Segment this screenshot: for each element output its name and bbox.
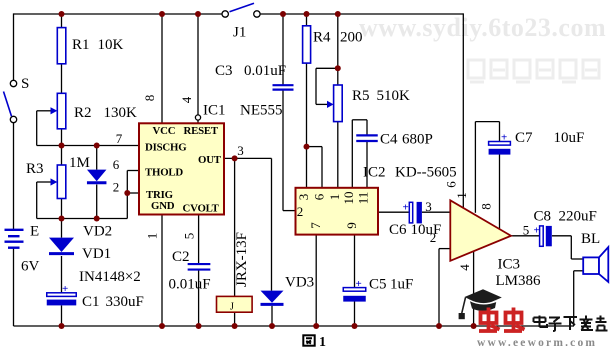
- svg-text:10: 10: [341, 192, 356, 205]
- svg-text:0.01uF: 0.01uF: [244, 63, 286, 79]
- svg-text:R3: R3: [26, 161, 44, 177]
- wire C1 to ground rail: [61, 306, 63, 327]
- wire top rail to R5: [337, 14, 339, 85]
- wire C2 to ground: [198, 270, 200, 326]
- wire IC2 pin10 riser: [351, 120, 353, 188]
- svg-text:3: 3: [425, 199, 432, 214]
- wire node jog: [307, 146, 323, 148]
- wire to speaker top: [570, 236, 572, 259]
- svg-text:+: +: [356, 278, 362, 290]
- wire jog to IC2 pin6: [321, 147, 323, 188]
- svg-text:VD1: VD1: [82, 246, 111, 262]
- svg-text:DISCHG: DISCHG: [145, 142, 187, 154]
- svg-text:C8: C8: [534, 209, 552, 225]
- svg-text:R2: R2: [74, 105, 92, 121]
- svg-text:R4: R4: [313, 30, 331, 46]
- wire C7 to IC3 pin8: [499, 154, 501, 229]
- wire R5 wiper loop: [315, 68, 317, 104]
- svg-text:4: 4: [179, 96, 194, 103]
- svg-text:RESET: RESET: [184, 125, 219, 137]
- wire IC3 pin2 stub: [439, 248, 450, 250]
- svg-text:11: 11: [356, 192, 371, 205]
- wire R5 wiper stub: [316, 103, 328, 105]
- svg-text:S: S: [21, 76, 29, 92]
- wire R2 wiper stub: [37, 110, 52, 112]
- svg-text:THOLD: THOLD: [145, 167, 183, 179]
- svg-text:6V: 6V: [21, 259, 40, 275]
- svg-text:IC1: IC1: [203, 103, 226, 119]
- node junction 19: [269, 323, 275, 329]
- node junction 9: [59, 216, 65, 222]
- svg-text:6: 6: [312, 193, 327, 200]
- svg-text:VCC: VCC: [153, 125, 176, 137]
- svg-text:R5: R5: [352, 88, 370, 104]
- wire IC3 output to C8: [511, 235, 540, 237]
- svg-text:10uF: 10uF: [411, 222, 442, 238]
- svg-text:E: E: [30, 224, 39, 240]
- node junction 18: [232, 323, 238, 329]
- wire pin10-11 bridge: [352, 119, 367, 121]
- capacitor C2 0.01uF: [188, 264, 211, 270]
- resistor R1 10K body: [57, 28, 66, 64]
- node junction 7: [59, 143, 65, 149]
- wire R1 to R2: [61, 64, 63, 94]
- capacitor C3 0.01uF: [273, 85, 294, 89]
- wire C4 bottom lead to pin11: [366, 141, 368, 188]
- wire speaker to ground: [573, 271, 575, 326]
- wire R5 wiper top: [316, 67, 338, 69]
- svg-text:JRX-13F: JRX-13F: [234, 232, 250, 287]
- wire bottom ground rail: [14, 325, 575, 327]
- node junction 13: [304, 144, 310, 150]
- wire C7 top lead: [499, 122, 501, 142]
- battery E 6V: [5, 230, 24, 248]
- svg-text:200: 200: [340, 30, 363, 46]
- capacitor C4 680P: [356, 135, 378, 141]
- svg-text:6: 6: [444, 181, 459, 188]
- wire node to R3: [61, 146, 63, 166]
- svg-text:J: J: [230, 302, 234, 313]
- svg-text:1uF: 1uF: [390, 277, 413, 293]
- resistor R3 1M body: [57, 165, 66, 199]
- resistor R5 510K body: [334, 85, 343, 122]
- wire IC2 pin9 to C5: [354, 235, 356, 288]
- svg-text:10uF: 10uF: [554, 130, 585, 146]
- svg-text:5: 5: [523, 223, 530, 238]
- wire R3 to VD1: [61, 199, 63, 238]
- switch J1: [222, 3, 260, 17]
- svg-text:R1: R1: [72, 37, 90, 53]
- svg-text:C2: C2: [172, 249, 190, 265]
- wire RESET pin4 lower: [197, 120, 199, 123]
- capacitor C8 220uF: [540, 226, 552, 246]
- wire VD2 to lower node: [96, 185, 98, 219]
- svg-text:+: +: [501, 132, 507, 144]
- svg-text:8: 8: [479, 203, 494, 210]
- svg-text:www.eeworm.com: www.eeworm.com: [477, 337, 597, 348]
- svg-text:2: 2: [113, 180, 120, 195]
- wire speaker top stub: [571, 258, 583, 260]
- wire top rail to R1: [61, 14, 63, 28]
- svg-text:GND: GND: [151, 200, 175, 212]
- svg-text:1: 1: [319, 335, 326, 348]
- node junction 15: [59, 323, 65, 329]
- svg-text:C5: C5: [369, 277, 387, 293]
- capacitor C5 1uF: [343, 278, 366, 302]
- switch S: [4, 80, 17, 122]
- svg-text:+: +: [403, 202, 409, 214]
- caption figure 1: [303, 335, 326, 348]
- wire RESET pin4 upper: [197, 14, 199, 115]
- wire battery to bottom rail: [13, 248, 15, 326]
- svg-text:www.sydiy.6to23.com: www.sydiy.6to23.com: [359, 13, 606, 42]
- wire relay to ground: [234, 312, 236, 326]
- wire VD3 to ground: [271, 306, 273, 326]
- svg-text:9: 9: [344, 222, 359, 229]
- svg-text:7: 7: [308, 222, 323, 229]
- svg-text:330uF: 330uF: [106, 294, 144, 310]
- wire switch to battery: [13, 123, 15, 230]
- node junction 8: [94, 143, 100, 149]
- op-amp U1 IC1 NE555 body: [139, 123, 224, 214]
- node junction 4: [280, 11, 286, 17]
- logo text dianzixiazaizhan: [534, 316, 608, 332]
- wire node to VD2: [96, 146, 98, 170]
- wire IC2 pin2 stub: [283, 210, 296, 212]
- svg-text:VD3: VD3: [285, 275, 314, 291]
- wire CVOLT pin5 to C2: [198, 215, 200, 264]
- node junction 16: [159, 323, 165, 329]
- wire THOLD/TRIG tie: [126, 171, 128, 219]
- svg-text:C4: C4: [380, 132, 398, 148]
- wire VCC pin8: [161, 14, 163, 123]
- wire IC3 pin1 riser: [474, 122, 476, 213]
- wire IC3 pin4 to ground: [473, 251, 475, 326]
- svg-text:3: 3: [237, 143, 244, 158]
- svg-text:BL: BL: [581, 231, 600, 247]
- relay J JRX-13F body: [217, 296, 253, 312]
- wire node to IC2 pin3: [306, 147, 308, 188]
- wire THOLD pin6 stub: [127, 170, 139, 172]
- speaker BL: [583, 247, 608, 282]
- svg-text:130K: 130K: [104, 105, 138, 121]
- node junction 22: [436, 323, 442, 329]
- wire R3 wiper loop: [36, 182, 38, 219]
- svg-text:+: +: [62, 283, 68, 295]
- svg-text:1: 1: [145, 233, 160, 240]
- watermark chinese row: [468, 60, 599, 82]
- node junction 6: [335, 11, 341, 17]
- svg-text:J1: J1: [233, 25, 246, 41]
- svg-text:2: 2: [297, 204, 304, 219]
- wire R4 to node: [306, 63, 308, 147]
- svg-text:VD2: VD2: [83, 224, 112, 240]
- wire relay feed: [234, 158, 236, 296]
- node junction 14: [335, 65, 341, 71]
- svg-text:IN4148×2: IN4148×2: [79, 269, 141, 285]
- svg-text:0.01uF: 0.01uF: [169, 277, 211, 293]
- wire top rail right of J1: [260, 13, 463, 15]
- svg-text:10K: 10K: [98, 37, 124, 53]
- wire speaker bottom stub: [574, 270, 584, 272]
- wire C6 to IC3 pin3: [422, 211, 450, 213]
- capacitor C6 10uF: [403, 202, 422, 224]
- svg-text:680P: 680P: [402, 132, 433, 148]
- svg-text:1: 1: [327, 194, 342, 201]
- wire DISCHG pin7 wire: [37, 145, 139, 147]
- diode VD3: [261, 291, 284, 305]
- svg-text:7: 7: [116, 131, 123, 146]
- node junction 1: [59, 11, 65, 17]
- svg-text:+: +: [534, 225, 540, 237]
- wire IC2 out to C6: [378, 211, 409, 213]
- potentiometer R2 wiper arrow: [51, 107, 58, 114]
- svg-text:LM386: LM386: [496, 273, 542, 289]
- svg-text:C7: C7: [515, 130, 533, 146]
- node junction 21: [352, 323, 358, 329]
- wire IC3 pin2 to ground: [438, 249, 440, 326]
- wire C8 out: [552, 235, 571, 237]
- logo text chongchong red: [479, 308, 525, 332]
- node junction 2: [159, 11, 165, 17]
- wire C5 to ground: [354, 302, 356, 327]
- wire TRIG pin2 stub: [127, 192, 139, 194]
- pin 4 circle on IC1 RESET: [195, 115, 200, 120]
- diode VD1: [49, 238, 74, 254]
- svg-text:220uF: 220uF: [559, 209, 597, 225]
- wire lower node wire: [37, 218, 128, 220]
- wire top rail left of J1: [14, 13, 223, 15]
- svg-text:3: 3: [296, 194, 311, 201]
- wire top rail to R4: [306, 14, 308, 26]
- svg-text:OUT: OUT: [198, 154, 222, 166]
- node junction 20: [313, 323, 319, 329]
- wire pin1 to C7 bridge: [475, 121, 499, 123]
- node junction 5: [304, 11, 310, 17]
- wire C3 to IC2 pin2: [282, 90, 284, 211]
- node junction 23: [471, 323, 477, 329]
- svg-text:NE555: NE555: [240, 103, 283, 119]
- diode VD2: [87, 170, 107, 183]
- node junction 10: [94, 216, 100, 222]
- svg-text:1M: 1M: [69, 155, 90, 171]
- wire top rail to C3: [282, 14, 284, 85]
- capacitor C1 330uF: [47, 283, 77, 305]
- svg-text:4: 4: [457, 264, 472, 271]
- svg-text:C6: C6: [389, 222, 407, 238]
- svg-text:C1: C1: [82, 294, 100, 310]
- watermark url text: [359, 13, 606, 42]
- svg-text:IC2: IC2: [363, 165, 386, 181]
- logo graduation cap icon: [459, 289, 502, 319]
- svg-text:IC3: IC3: [498, 257, 521, 273]
- wire R5 to IC2 pin1: [337, 122, 339, 188]
- svg-text:5: 5: [182, 233, 197, 240]
- wire C4 top lead: [366, 120, 368, 136]
- capacitor C7 10uF: [489, 132, 511, 155]
- wire OUT pin3 wire: [224, 157, 272, 159]
- resistor R4 200 body: [303, 26, 311, 63]
- op-amp U2 IC2 KD-5605 body: [296, 188, 379, 235]
- wire R2 wiper loop: [36, 111, 38, 146]
- svg-text:C3: C3: [215, 63, 233, 79]
- svg-text:6: 6: [113, 157, 120, 172]
- svg-text:CVOLT: CVOLT: [183, 203, 220, 215]
- op-amp U3 IC3 LM386 body: [450, 200, 511, 260]
- potentiometer R5 wiper arrow: [327, 101, 334, 108]
- svg-text:KD--5605: KD--5605: [395, 165, 457, 181]
- wire V+ drop to IC3 pin6: [462, 13, 464, 207]
- resistor R2 130K body: [57, 93, 66, 129]
- wire R2 to node: [61, 129, 63, 146]
- wire GND pin1: [161, 215, 163, 327]
- svg-text:510K: 510K: [377, 88, 411, 104]
- svg-text:8: 8: [142, 95, 157, 102]
- wire VD1 to C1: [61, 256, 63, 293]
- node junction 3: [195, 11, 201, 17]
- wire R3 wiper stub: [37, 181, 52, 183]
- svg-text:1: 1: [454, 192, 469, 199]
- potentiometer R3 wiper arrow: [51, 178, 58, 185]
- node junction 12: [232, 155, 238, 161]
- wire left rail to switch: [13, 13, 15, 80]
- node junction 17: [196, 323, 202, 329]
- wire IC2 pin7 to ground: [315, 235, 317, 326]
- node junction 11: [124, 190, 130, 196]
- wire VD3 feed: [271, 158, 273, 290]
